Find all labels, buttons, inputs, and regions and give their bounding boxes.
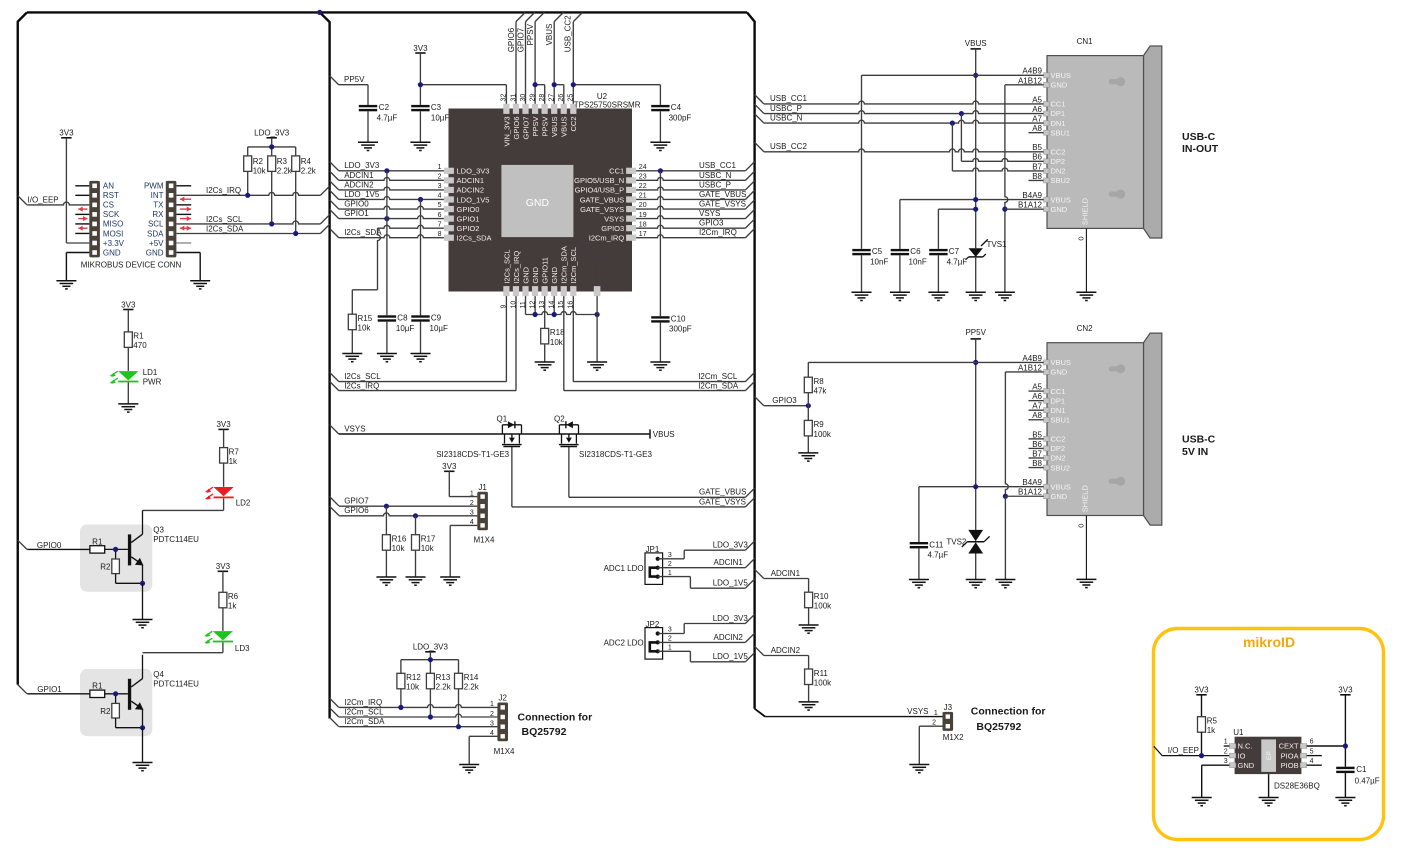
jumper JP1 ADC1 LDO [604, 545, 672, 584]
svg-text:26: 26 [558, 94, 565, 102]
resistor R5 [1198, 717, 1218, 736]
svg-text:B8: B8 [1032, 459, 1042, 468]
svg-text:R8: R8 [814, 377, 825, 386]
svg-text:3V3: 3V3 [1194, 686, 1209, 695]
svg-text:BQ25792: BQ25792 [976, 721, 1021, 733]
svg-text:1k: 1k [228, 602, 237, 611]
svg-text:BQ25792: BQ25792 [522, 726, 567, 738]
ground [1335, 798, 1355, 806]
junction PP5V A4B9 [973, 360, 978, 365]
node I2Cm_IRQ label [699, 228, 737, 237]
ground [966, 580, 986, 588]
svg-text:10µF: 10µF [431, 113, 450, 122]
wire B1A12 row [1005, 208, 1044, 210]
svg-text:32: 32 [501, 94, 508, 102]
node GATE_VSYS label [699, 199, 746, 208]
svg-text:A1B12: A1B12 [1018, 363, 1043, 372]
ground [1192, 798, 1212, 806]
wire R14 bottom [458, 689, 460, 727]
wire R13 bottom [429, 689, 431, 717]
svg-text:M1X4: M1X4 [474, 536, 495, 545]
wire GND column to ground [1004, 496, 1006, 579]
capacitor C3 [411, 103, 449, 122]
node GATE_VBUS label [699, 488, 746, 497]
wire GPIO11 to R18 [544, 296, 546, 328]
svg-text:GPIO1: GPIO1 [457, 214, 480, 223]
ground [1259, 798, 1279, 806]
wire exit chamfer [745, 181, 754, 190]
svg-text:3: 3 [668, 552, 672, 559]
node I2Cs_SDA label [206, 224, 244, 233]
junction VBUS A4B9 [973, 73, 978, 78]
wire Q4 emitter to ground [142, 728, 144, 763]
svg-text:GND: GND [521, 266, 530, 283]
wire ADCIN2 to R11 [764, 656, 809, 670]
wire C6 to ground [899, 255, 901, 292]
svg-text:I2Cm_SDA: I2Cm_SDA [698, 381, 739, 390]
svg-text:R7: R7 [229, 447, 240, 456]
ground [928, 292, 948, 300]
wire GPIO0 [339, 206, 444, 209]
power 3V3 [121, 300, 136, 309]
wire I/O_EEP [27, 202, 89, 205]
svg-text:PPSV: PPSV [526, 23, 535, 45]
wire B4A9 row [900, 199, 1044, 201]
svg-text:PIOB: PIOB [1281, 761, 1299, 770]
wire stub [1029, 457, 1044, 459]
wire JP2 pin3 LDO_3V3 [658, 624, 746, 634]
svg-text:10k: 10k [421, 544, 435, 553]
wire GPIO2 [378, 225, 444, 228]
wire LDO_1V5 [339, 197, 444, 200]
svg-text:PPSV: PPSV [541, 117, 550, 137]
svg-text:GND: GND [1238, 761, 1255, 770]
wire JP1 pin3 LDO_3V3 [658, 550, 746, 559]
wire GND pin to ground [176, 253, 200, 281]
svg-text:21: 21 [639, 193, 647, 200]
wire exit chamfer [755, 114, 764, 123]
svg-text:IO: IO [1238, 751, 1246, 760]
ground [890, 292, 910, 300]
wire I2Cs_SDA [176, 231, 320, 236]
svg-text:3: 3 [1224, 758, 1228, 765]
wire GPIO1 [339, 216, 444, 219]
svg-text:SBU1: SBU1 [1051, 128, 1071, 137]
wire USB_CC2/CC2 [764, 149, 1044, 152]
svg-text:SI2318CDS-T1-GE3: SI2318CDS-T1-GE3 [579, 450, 652, 459]
connector mikroBUS header right [144, 181, 176, 258]
svg-text:PDTC114EU: PDTC114EU [153, 535, 199, 544]
ground [440, 577, 460, 585]
wire MISO stub [75, 223, 89, 225]
wire stub [1029, 400, 1044, 402]
wire PP5V to C2 [339, 85, 368, 105]
arrow I2C bidir [180, 226, 191, 231]
wire R1 to LD1 [127, 347, 129, 371]
wire stub [1029, 467, 1044, 469]
wire LDO_3V3 rail [401, 652, 459, 674]
svg-text:SI2318CDS-T1-GE3: SI2318CDS-T1-GE3 [436, 450, 509, 459]
wire exit chamfer [755, 397, 764, 406]
svg-text:R9: R9 [814, 420, 825, 429]
svg-text:I2Cs_IRQ: I2Cs_IRQ [344, 381, 379, 390]
svg-text:LDO_3V3: LDO_3V3 [713, 541, 749, 550]
svg-text:B6: B6 [1032, 153, 1042, 162]
wire B5 stub [1029, 438, 1044, 440]
svg-text:CC2: CC2 [569, 117, 578, 132]
wire VBUS row CN2 [808, 361, 1043, 363]
wire exit chamfer [745, 653, 754, 662]
wire exit chamfer [755, 142, 764, 151]
ground [995, 580, 1015, 588]
svg-text:B5: B5 [1032, 430, 1042, 439]
svg-text:I2Cs_SCL: I2Cs_SCL [502, 249, 511, 283]
svg-text:CC1: CC1 [609, 167, 624, 176]
node LDO_3V3 label [713, 614, 749, 623]
wire R16 column [385, 506, 387, 535]
wire Q3 emitter to ground [142, 583, 144, 619]
resistor R18 [541, 328, 565, 347]
svg-text:GND: GND [146, 248, 164, 257]
svg-text:USBC_N: USBC_N [770, 114, 803, 123]
svg-text:C11: C11 [929, 540, 944, 549]
svg-text:B6: B6 [1032, 440, 1042, 449]
node VBUS tick [650, 429, 675, 438]
wire ADCIN1 to R10 [764, 579, 809, 593]
capacitor C10 [651, 315, 692, 334]
wire exit chamfer [745, 190, 754, 199]
svg-text:GPIO0: GPIO0 [457, 205, 480, 214]
jumper JP2 ADC2 LDO [604, 620, 672, 659]
wire C10 to ground [659, 323, 661, 362]
svg-text:10µF: 10µF [396, 324, 415, 333]
wire JP2 pin2 ADCIN2 [658, 641, 746, 643]
resistor R15 [348, 314, 372, 333]
wire CC2 to C4 [571, 82, 661, 105]
wire J2 pin4 to ground [469, 736, 497, 764]
wire GND A1B12 CN2 [1005, 372, 1043, 496]
wire I/O_EEP exit chamfer [18, 196, 27, 205]
svg-text:TVS1: TVS1 [987, 240, 1008, 249]
svg-text:DN2: DN2 [1051, 454, 1066, 463]
svg-text:R6: R6 [228, 592, 239, 601]
svg-text:R1: R1 [92, 537, 103, 546]
svg-text:1: 1 [1224, 739, 1228, 746]
wire C11 column [918, 487, 920, 542]
svg-text:GPIO7: GPIO7 [521, 117, 530, 140]
svg-text:I2Cm_SCL: I2Cm_SCL [344, 707, 384, 716]
power 3V3 [216, 420, 231, 429]
svg-text:SCK: SCK [103, 210, 120, 219]
wire C8 to ground [386, 322, 388, 354]
svg-text:GPIO6: GPIO6 [344, 506, 369, 515]
svg-text:4.7µF: 4.7µF [928, 551, 949, 560]
wire stub [1029, 409, 1044, 411]
svg-text:100k: 100k [814, 602, 832, 611]
node PP5V label [344, 75, 365, 84]
svg-text:B7: B7 [1032, 449, 1042, 458]
svg-text:I2Cm_IRQ: I2Cm_IRQ [344, 698, 382, 707]
resistor R12 [397, 673, 421, 692]
wire GPIO7 [339, 504, 478, 509]
pin numbers/names U2 right [574, 164, 647, 243]
svg-text:VIN_3V3: VIN_3V3 [502, 117, 511, 147]
wire +5V stub [176, 242, 191, 244]
svg-text:25: 25 [568, 94, 575, 102]
svg-text:2: 2 [668, 561, 672, 568]
svg-text:8: 8 [438, 231, 442, 238]
node GPIO3 label [772, 396, 797, 405]
svg-text:18: 18 [639, 221, 647, 228]
wire exit chamfer [330, 698, 339, 707]
svg-text:I2Cs_SDA: I2Cs_SDA [457, 234, 492, 243]
node USBC_P label [699, 180, 731, 189]
svg-text:470: 470 [133, 341, 147, 350]
label U1 refdes [1233, 728, 1320, 791]
ground [410, 142, 430, 150]
ground [133, 763, 153, 771]
node GATE_VSYS label [699, 497, 746, 506]
transistor Q2 SI2318CDS-T1-GE3 [554, 414, 652, 459]
wire C2 to ground [367, 111, 369, 142]
svg-text:20: 20 [639, 202, 647, 209]
svg-text:R17: R17 [421, 535, 436, 544]
wire R18 to ground [544, 344, 546, 362]
node ADCIN2 label [714, 633, 744, 642]
wire GATE_VBUS [636, 197, 745, 200]
svg-text:GATE_VSYS: GATE_VSYS [699, 497, 746, 506]
svg-text:C1: C1 [1356, 765, 1367, 774]
svg-text:I/O_EEP: I/O_EEP [1168, 746, 1199, 755]
svg-text:B7: B7 [1032, 162, 1042, 171]
wire exit chamfer [330, 229, 339, 238]
svg-text:USBC_P: USBC_P [699, 180, 731, 189]
wire B4A9 row CN2 [919, 486, 1044, 488]
svg-text:RX: RX [152, 210, 164, 219]
power 3V3 [59, 129, 74, 138]
wire SBU1 stub [1029, 132, 1044, 134]
node VSYS label [699, 209, 720, 218]
resistor R8 [804, 377, 827, 396]
node I/O_EEP label [28, 196, 59, 205]
wire C8 column [386, 171, 388, 315]
svg-text:3V3: 3V3 [121, 300, 136, 309]
svg-text:3V3: 3V3 [59, 129, 74, 138]
svg-text:LDO_1V5: LDO_1V5 [457, 195, 490, 204]
wire R9 to ground [807, 436, 809, 453]
junction VBUS B4A9 [973, 197, 978, 202]
wire R4 bottom [295, 171, 297, 233]
svg-text:B4A9: B4A9 [1022, 191, 1042, 200]
capacitor C6 [891, 247, 927, 266]
svg-text:+5V: +5V [149, 239, 164, 248]
wire exit chamfer [526, 12, 535, 21]
wire PPSV to bus [526, 22, 535, 104]
node GPIO1 label [344, 209, 369, 218]
svg-text:LDO_3V3: LDO_3V3 [413, 643, 449, 652]
svg-text:SHIELD: SHIELD [1081, 485, 1090, 513]
svg-text:C5: C5 [872, 247, 883, 256]
svg-text:VSYS: VSYS [699, 209, 720, 218]
wire R10 to ground [808, 608, 810, 625]
junction CEXT/C1 [1343, 743, 1348, 748]
svg-text:DP2: DP2 [1051, 444, 1066, 453]
capacitor C1 [1336, 765, 1380, 785]
wire R9 [807, 406, 809, 421]
svg-text:24: 24 [639, 164, 647, 171]
node I2Cs_IRQ label [344, 381, 379, 390]
ground [342, 354, 362, 362]
svg-text:GND: GND [531, 266, 540, 283]
svg-text:DS28E36BQ: DS28E36BQ [1274, 781, 1320, 790]
svg-text:GATE_VBUS: GATE_VBUS [699, 190, 746, 199]
svg-text:CEXT: CEXT [1279, 742, 1299, 751]
wire PP5V column [975, 339, 977, 530]
wire GND pins rail [526, 296, 600, 317]
node LDO_1V5 label [713, 652, 749, 661]
svg-text:R2: R2 [100, 707, 111, 716]
svg-text:2: 2 [668, 636, 672, 643]
ground [966, 292, 986, 300]
svg-text:4.7µF: 4.7µF [377, 113, 398, 122]
wire GATE_VSYS [512, 447, 746, 507]
svg-text:VBUS: VBUS [1051, 358, 1071, 367]
svg-text:SBU2: SBU2 [1051, 176, 1071, 185]
wire exit chamfer [330, 181, 339, 190]
svg-text:EP: EP [1266, 751, 1273, 760]
wire 3V3 to R1 [127, 310, 129, 332]
wire C7 column [937, 209, 939, 249]
wire R8 bottom [807, 393, 809, 406]
node GPIO3 label [699, 219, 724, 228]
svg-text:3V3: 3V3 [216, 562, 231, 571]
svg-text:I2Cs_IRQ: I2Cs_IRQ [512, 251, 521, 284]
node I2Cm_SCL label [698, 372, 738, 381]
svg-text:GPIO4/USB_P: GPIO4/USB_P [575, 186, 625, 195]
wire exit chamfer [745, 162, 754, 171]
node I2Cs_SDA label [344, 228, 382, 237]
svg-text:USB_CC1: USB_CC1 [699, 161, 736, 170]
wire exit chamfer [745, 219, 754, 228]
junction LDO_3V3/C8 [384, 168, 389, 173]
wire exit chamfer [745, 209, 754, 218]
svg-text:J3: J3 [944, 703, 953, 712]
wire EP to ground [1268, 774, 1270, 797]
svg-text:I2Cm_IRQ: I2Cm_IRQ [589, 234, 625, 243]
svg-text:4.7µF: 4.7µF [947, 257, 968, 266]
svg-text:GPIO3: GPIO3 [699, 219, 724, 228]
wire C6 column [899, 200, 901, 249]
wire VBUS row [862, 74, 1044, 76]
connector mikroBUS header left [89, 181, 124, 258]
mikroID box [1154, 629, 1384, 840]
svg-text:LDO_1V5: LDO_1V5 [344, 190, 380, 199]
svg-text:SDA: SDA [147, 229, 164, 238]
svg-text:3: 3 [668, 627, 672, 634]
svg-text:R13: R13 [436, 673, 451, 682]
svg-text:LDO_3V3: LDO_3V3 [713, 614, 749, 623]
svg-text:2: 2 [490, 711, 494, 718]
svg-text:ADCIN1: ADCIN1 [344, 171, 374, 180]
svg-text:DN2: DN2 [1051, 167, 1066, 176]
junction CC1/C10 [658, 168, 663, 173]
svg-text:A6: A6 [1032, 105, 1042, 114]
node LDO_3V3 label [344, 161, 380, 170]
svg-text:R16: R16 [392, 535, 407, 544]
transistor Q1 SI2318CDS-T1-GE3 [436, 414, 521, 459]
svg-text:19: 19 [639, 212, 647, 219]
wire B1A12 row CN2 [1005, 495, 1043, 497]
svg-text:PPSV: PPSV [531, 117, 540, 137]
wire GPIO7 to bus [516, 22, 525, 104]
svg-text:GND: GND [526, 197, 550, 209]
wire JP1 pin2 ADCIN1 [658, 567, 746, 569]
svg-text:GATE_VSYS: GATE_VSYS [699, 199, 746, 208]
svg-text:I2Cs_SDA: I2Cs_SDA [206, 224, 244, 233]
LED LD3 [205, 631, 250, 653]
svg-text:I/O_EEP: I/O_EEP [28, 196, 59, 205]
svg-text:2: 2 [932, 719, 936, 726]
svg-text:DP2: DP2 [1051, 157, 1066, 166]
svg-text:USB-C: USB-C [1182, 434, 1216, 446]
label MIKROBUS DEVICE CONN [81, 260, 182, 269]
svg-text:SBU1: SBU1 [1051, 415, 1071, 424]
wire PPSV pin28 join [533, 82, 545, 104]
svg-text:31: 31 [510, 94, 517, 102]
resistor R16 [382, 535, 406, 554]
svg-text:TX: TX [153, 201, 164, 210]
svg-text:GPIO0: GPIO0 [344, 199, 369, 208]
node GPIO6 label [344, 506, 369, 515]
svg-text:1k: 1k [1207, 726, 1216, 735]
wire exit chamfer [573, 12, 582, 21]
svg-text:CN2: CN2 [1077, 324, 1094, 333]
svg-text:GPIO0: GPIO0 [37, 541, 62, 550]
svg-text:I2Cs_SCL: I2Cs_SCL [344, 372, 381, 381]
capacitor C4 [651, 103, 691, 122]
wire USBC_P/DP1 [764, 111, 1044, 117]
svg-text:Q1: Q1 [497, 414, 508, 423]
svg-text:17: 17 [639, 231, 647, 238]
svg-text:GPIO2: GPIO2 [457, 224, 480, 233]
svg-text:B1A12: B1A12 [1018, 488, 1043, 497]
svg-text:R1: R1 [92, 682, 103, 691]
node I2Cm_SCL label [344, 707, 384, 716]
wire C5 column [861, 75, 863, 249]
svg-text:+3.3V: +3.3V [103, 239, 125, 248]
node VSYS label [344, 424, 365, 433]
svg-text:C3: C3 [431, 103, 442, 112]
wire bus outline frame [18, 12, 755, 718]
svg-text:2.2k: 2.2k [436, 683, 452, 692]
svg-text:PP5V: PP5V [965, 328, 986, 337]
svg-text:GPIO6: GPIO6 [507, 27, 516, 52]
wire JP1 pin1 LDO_1V5 [658, 577, 746, 589]
wire C1 to ground [1344, 773, 1346, 797]
junction LDO_1V5/C9 [418, 197, 423, 202]
svg-text:1: 1 [668, 570, 672, 577]
transistor Q3 PDTC114EU [27, 510, 199, 591]
ground [650, 362, 670, 370]
ground [56, 281, 76, 289]
svg-text:GPIO7: GPIO7 [516, 27, 525, 52]
svg-text:JP1: JP1 [646, 545, 660, 554]
svg-text:ADCIN2: ADCIN2 [457, 186, 485, 195]
wire C4 to ground [659, 111, 661, 142]
svg-text:GND: GND [1051, 205, 1068, 214]
wire LD2 to Q3 collector [143, 498, 224, 510]
svg-text:GPIO11: GPIO11 [541, 257, 550, 284]
